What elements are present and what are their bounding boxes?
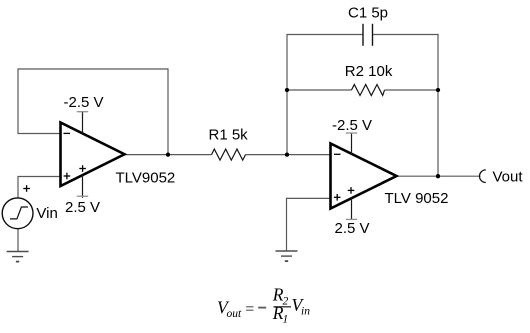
wire Vin to ground (17, 229, 19, 252)
op-amp U2 minus mark (334, 153, 341, 155)
terminal Vout (479, 170, 485, 183)
svg-text:in: in (301, 306, 310, 318)
wire R2 left (287, 89, 352, 91)
wire U1 inverting input (18, 133, 61, 135)
ground below U2 non-inverting input (276, 251, 298, 261)
op-amp U2 negative supply bar (346, 132, 357, 134)
wire R1 to U2 inverting input (246, 154, 331, 156)
wire left feedback rail (286, 35, 288, 155)
svg-text:R2 10k: R2 10k (345, 63, 393, 80)
wire feedback box U1 left (17, 68, 19, 133)
svg-text:TLV 9052: TLV 9052 (385, 190, 449, 207)
wire C1 left (286, 34, 363, 36)
node junction R2 right (436, 88, 440, 92)
wire Vin to U1 (17, 176, 19, 198)
svg-text:1: 1 (283, 313, 289, 325)
equation fraction bar (273, 306, 291, 308)
op-amp U1 minus mark (64, 132, 71, 134)
wire U2 non-inverting to ground (286, 198, 288, 251)
wire feedback box U1 top (18, 68, 169, 70)
wire right feedback rail (437, 34, 439, 176)
svg-text:2.5 V: 2.5 V (335, 220, 370, 237)
svg-text:C1 5p: C1 5p (348, 4, 388, 21)
svg-text:Vin: Vin (36, 205, 57, 222)
wire C1 right (373, 34, 439, 36)
op-amp U1 positive supply bar (77, 195, 88, 197)
svg-text:R1 5k: R1 5k (209, 127, 249, 144)
wire feedback box U1 right (167, 68, 169, 154)
op-amp U1 negative supply pin (82, 112, 84, 134)
op-amp U2 positive supply pin (351, 197, 353, 219)
op-amp U1 (61, 123, 125, 187)
wire U2 output to Vout (396, 175, 481, 177)
node junction U1 feedback/output (166, 152, 170, 156)
wire U2 non-inverting input (287, 197, 331, 199)
node junction U2 inverting input (285, 152, 289, 156)
equation Vout = -R2/R1 Vin (217, 285, 310, 326)
svg-text:2.5 V: 2.5 V (65, 199, 100, 216)
svg-text:=: = (244, 301, 255, 318)
op-amp U2 negative supply pin (351, 133, 353, 155)
svg-text:-2.5 V: -2.5 V (332, 117, 372, 134)
source Vin ramp symbol (10, 207, 28, 219)
wire R2 right (385, 89, 439, 91)
ground below Vin (7, 252, 29, 262)
op-amp U2 input plus mark (334, 194, 341, 201)
node junction U2 output (436, 174, 440, 178)
equation minus sign (258, 307, 266, 309)
wire U1 non-inverting input (18, 176, 61, 178)
resistor R2 (352, 85, 385, 96)
op-amp U1 negative supply bar (77, 111, 88, 113)
op-amp U2 (331, 144, 397, 209)
source Vin plus polarity (23, 185, 30, 192)
op-amp U2 supply plus mark (348, 187, 355, 194)
wire U1 output (124, 154, 212, 156)
op-amp U2 positive supply bar (346, 218, 357, 220)
resistor R1 (212, 149, 246, 160)
node junction R2 left (285, 88, 289, 92)
svg-text:out: out (227, 308, 243, 320)
op-amp U1 positive supply pin (82, 175, 84, 198)
svg-text:Vout: Vout (493, 169, 524, 186)
source Vin (2, 198, 33, 229)
op-amp U1 input plus mark (64, 173, 71, 180)
op-amp U1 supply plus mark (79, 165, 86, 172)
capacitor C1 (363, 24, 373, 46)
svg-text:-2.5 V: -2.5 V (64, 94, 104, 111)
svg-text:TLV9052: TLV9052 (116, 169, 176, 186)
